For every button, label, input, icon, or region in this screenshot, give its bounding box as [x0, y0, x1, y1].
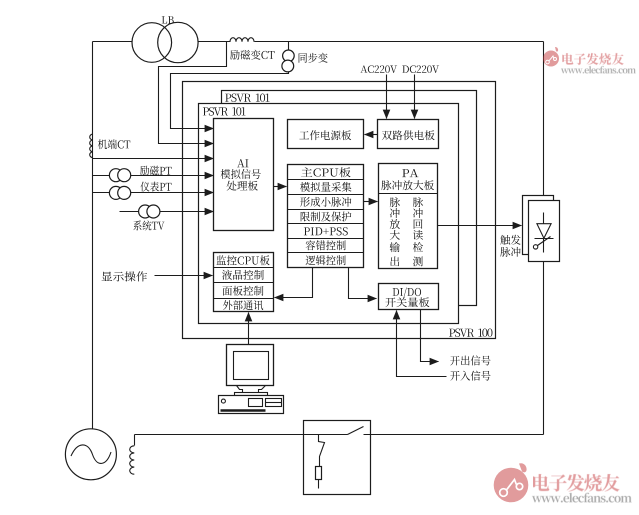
- label 励磁PT: [140, 166, 172, 176]
- label 触发脉冲 line2: [500, 247, 520, 257]
- label PSVR 101 (front card): [203, 107, 246, 115]
- discharge branch lead: [319, 435, 325, 467]
- text vertical 脉冲放大输出: [390, 197, 400, 207]
- wire - right rail down to thyristor: [543, 42, 545, 196]
- cabinet box PSVR 101 channel B (back card): [222, 91, 477, 306]
- transformer LB right winding: [158, 22, 198, 62]
- thyristor SCR gate circle: [533, 245, 537, 249]
- label 机端CT: [98, 139, 130, 149]
- wire - top bus from CT coil to right rail: [255, 41, 544, 43]
- block DI/DO board 开关量板: [379, 284, 439, 310]
- field switch blade: [348, 427, 364, 435]
- label PSVR 100: [449, 329, 492, 337]
- block dual supply board 双路供电板: [378, 120, 439, 149]
- PA board header separator: [379, 193, 438, 195]
- cabinet box PSVR 101 channel A (front card): [199, 104, 459, 324]
- wire - excitation PT to AI input 4 (left): [93, 175, 110, 177]
- transformer 同步变 top winding: [283, 50, 295, 62]
- transformer 仪表PT left circle: [109, 186, 122, 199]
- wire - display-operate to monitor CPU board: [155, 275, 213, 277]
- transformer 系统TV right circle: [147, 205, 160, 218]
- coil - terminal CT on left rail (机端CT): [90, 134, 93, 158]
- transformer 励磁PT right circle: [118, 169, 131, 182]
- text 主CPU板: [301, 167, 351, 177]
- wire - left rail from top bus to generator: [92, 42, 94, 429]
- label 系统TV: [133, 220, 164, 230]
- watermark url bottom-right: [532, 493, 632, 503]
- generator stator circle: [65, 429, 116, 480]
- watermark url top-right: [561, 66, 636, 73]
- thyristor SCR gate line: [538, 237, 551, 246]
- wire - thyristor output down right rail: [543, 262, 545, 435]
- text 液晶控制: [222, 270, 264, 280]
- main CPU board row separator 5: [288, 238, 364, 240]
- wire - CPU logic to monitor CPU board: [275, 268, 313, 298]
- watermark text bottom-right: [533, 474, 620, 492]
- label 触发脉冲 line1: [500, 235, 520, 245]
- text 监控CPU板: [216, 255, 269, 265]
- transformer LB left winding: [132, 23, 172, 63]
- thyristor SCR anode lead: [543, 213, 545, 224]
- transformer 同步变 bottom winding: [282, 60, 294, 72]
- computer system unit: [219, 396, 284, 414]
- text 逻辑控制: [306, 255, 346, 265]
- text DI/DO: [393, 288, 421, 298]
- block PA pulse amplifier board: [379, 164, 438, 269]
- computer monitor outer: [227, 345, 274, 386]
- wire - computer to external-comm (up arrow): [248, 313, 250, 345]
- wire - trigger pulse PA to thyristor: [438, 225, 522, 227]
- block monitor CPU board 监控CPU板: [214, 253, 274, 312]
- generator sine wave: [71, 445, 111, 464]
- text 工作电源板: [299, 130, 351, 140]
- wire - meter PT to AI input 5 (right): [131, 192, 214, 194]
- monitor CPU board row separator 3: [214, 298, 274, 300]
- wire - input signal to DI/DO: [397, 311, 447, 377]
- computer drive bay 2: [266, 399, 282, 407]
- text 容错控制: [306, 240, 346, 250]
- wire - bottom field bus (left of switch): [135, 434, 348, 436]
- computer monitor screen: [234, 352, 269, 380]
- text 模拟量采集: [300, 182, 351, 192]
- text 面板控制: [222, 286, 263, 296]
- label PSVR 101 (back card): [225, 94, 269, 102]
- monitor CPU board row separator 2: [214, 282, 274, 284]
- wire - CPU logic to DI/DO board: [349, 268, 377, 299]
- wire - dual supply to working power board: [365, 134, 378, 136]
- wire - AC220V supply arrow: [386, 75, 388, 119]
- block working power board 工作电源板: [288, 120, 364, 149]
- text 脉冲放大板: [381, 180, 434, 190]
- thyristor module front plate: [529, 201, 560, 262]
- text AI: [237, 159, 248, 167]
- wire - terminal CT to AI input 3: [93, 158, 214, 160]
- text 处理板: [227, 181, 258, 191]
- field winding stub: [134, 435, 136, 446]
- wire - meter PT to AI input 5 (left): [93, 192, 110, 194]
- thyristor SCR cathode lead: [543, 239, 545, 253]
- watermark logo bottom-right: [494, 463, 529, 502]
- transformer 系统TV left circle: [139, 205, 152, 218]
- thyristor SCR cathode bar: [535, 238, 554, 240]
- label 显示操作: [102, 271, 148, 281]
- wire - DI/DO to output signal: [421, 310, 439, 362]
- field discharge switch box: [304, 421, 371, 495]
- wire - LB secondary to excitation CT coil: [198, 41, 231, 43]
- computer monitor neck: [237, 386, 243, 393]
- wire - bottom field bus (right of switch): [364, 434, 544, 436]
- text PID+PSS: [304, 227, 348, 235]
- text PA: [402, 169, 418, 177]
- wire - stub to sync transformer: [288, 42, 290, 51]
- computer monitor base: [235, 393, 268, 396]
- thyristor SCR triangle: [537, 224, 551, 239]
- main CPU board row separator 1: [288, 179, 364, 181]
- wire - top bus to LB primary: [93, 41, 133, 43]
- block main CPU board 主CPU板: [288, 165, 364, 268]
- wire - system TV to AI input 6 (left): [120, 211, 139, 213]
- transformer 励磁PT left circle: [109, 169, 122, 182]
- watermark text top-right: [562, 53, 623, 65]
- main CPU board row separator 6: [288, 252, 364, 254]
- block AI analog signal board: [214, 119, 274, 231]
- thyristor module back plate: [523, 196, 554, 255]
- main CPU board row separator 4: [288, 223, 364, 225]
- label 开出信号: [450, 355, 490, 365]
- wire - sync transformer to AI input 1 (via left routing): [171, 72, 289, 129]
- wire - system TV to AI input 6 (right): [160, 211, 214, 213]
- wire - AI board to main CPU board: [274, 186, 287, 188]
- main CPU board row separator 3: [288, 209, 364, 211]
- cabinet box PSVR 100 (outer): [183, 82, 496, 339]
- computer drive bay 1: [249, 399, 263, 407]
- label 同步变: [299, 53, 328, 63]
- discharge resistor: [316, 467, 322, 480]
- wire - DC220V supply arrow: [414, 75, 416, 119]
- wire - excitation PT to AI input 4 (right): [131, 175, 214, 177]
- wire - excitation tap to AI input 2: [159, 42, 227, 144]
- main CPU board row separator 2: [288, 194, 364, 196]
- label 励磁变CT: [230, 50, 274, 60]
- computer front stripe: [221, 409, 266, 412]
- label 仪表PT: [140, 182, 171, 192]
- label AC220V DC220V: [360, 65, 439, 73]
- field winding coil: [130, 446, 135, 474]
- text 外部通讯: [223, 300, 263, 310]
- monitor CPU board row separator 1: [214, 267, 274, 269]
- text 限制及保护: [301, 211, 352, 221]
- watermark logo top-right: [543, 47, 559, 67]
- coil - excitation transformer CT (励磁变CT): [230, 38, 254, 42]
- text vertical 脉冲回读检测: [413, 197, 423, 207]
- text 双路供电板: [382, 130, 435, 140]
- wire - main CPU to PA board: [364, 201, 378, 203]
- text 开关量板: [385, 297, 429, 307]
- computer power button: [221, 399, 225, 403]
- text 形成小脉冲: [300, 197, 351, 207]
- discharge resistor bottom lead: [318, 480, 320, 489]
- label 开入信号: [450, 371, 490, 381]
- transformer 仪表PT right circle: [118, 186, 131, 199]
- text 模拟信号: [221, 169, 261, 179]
- transformer LB label: [162, 16, 174, 23]
